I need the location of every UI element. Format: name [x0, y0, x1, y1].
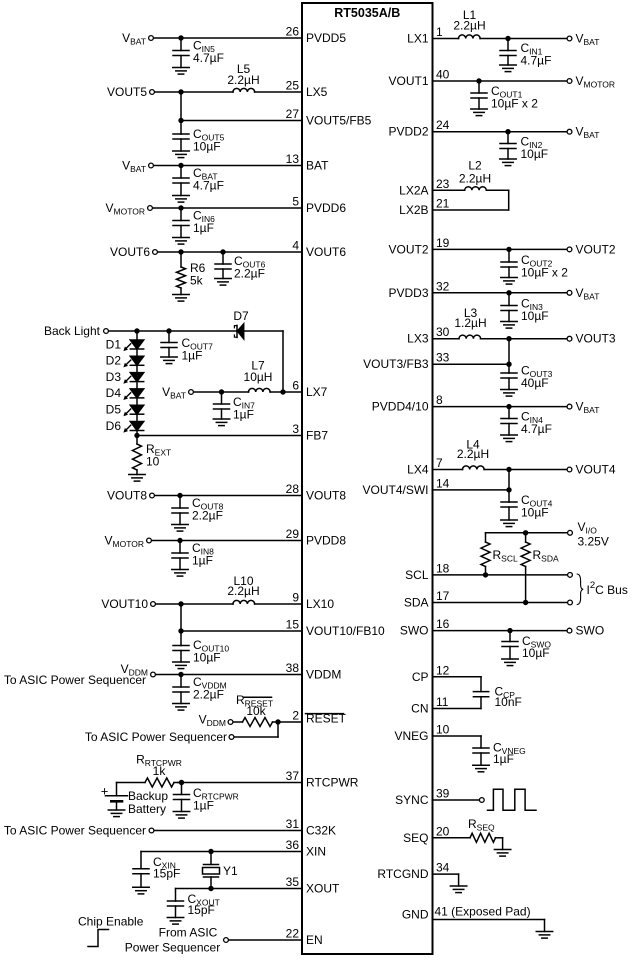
svg-text:8: 8 [436, 393, 443, 407]
svg-text:C32K: C32K [306, 824, 336, 838]
ground COUT2 [501, 278, 517, 285]
wire GND corner down [544, 920, 546, 932]
svg-text:10µF: 10µF [193, 140, 221, 154]
svg-text:35: 35 [286, 875, 300, 889]
svg-text:VOUT8: VOUT8 [306, 489, 346, 503]
svg-text:FB7: FB7 [306, 429, 328, 443]
ground CIN5 [173, 68, 189, 75]
wire L4 to VOUT4 [484, 469, 566, 471]
svg-text:37: 37 [286, 769, 300, 783]
ground battery [108, 810, 124, 817]
svg-text:VOUT1: VOUT1 [388, 74, 428, 88]
svg-text:9: 9 [292, 591, 299, 605]
inductor L1 [459, 35, 481, 39]
wire CP [433, 676, 482, 678]
svg-text:3: 3 [292, 422, 299, 436]
wire L1 to VBAT [480, 38, 566, 40]
terminal circle VBAT r1 [567, 36, 572, 41]
battery Backup Battery [106, 783, 128, 811]
terminal circle VDDM [151, 672, 156, 677]
svg-text:SYNC: SYNC [395, 793, 429, 807]
ground COUT1 [471, 109, 487, 116]
svg-text:VOUT2: VOUT2 [576, 242, 616, 256]
capacitor COUT3 [501, 373, 517, 390]
terminal circle SCL [568, 573, 573, 578]
svg-text:18: 18 [436, 561, 450, 575]
svg-text:To ASIC Power Sequencer: To ASIC Power Sequencer [85, 730, 227, 744]
svg-text:4: 4 [292, 239, 299, 253]
wire VOUT5 to L5 [155, 91, 233, 93]
ground COUT6 [215, 279, 231, 286]
svg-text:Power Sequencer: Power Sequencer [125, 941, 220, 955]
ground COUT10 [173, 662, 189, 669]
ground CIN2 [500, 159, 516, 166]
svg-text:VOUT10/FB10: VOUT10/FB10 [306, 624, 385, 638]
wire L10 to LX10 [255, 603, 302, 605]
terminal circle VBAT L7 [189, 390, 194, 395]
wire VOUT2 [433, 248, 567, 250]
svg-text:VDDM: VDDM [199, 713, 226, 729]
svg-text:10µF x 2: 10µF x 2 [521, 266, 568, 280]
junction SDA RSDA [523, 600, 528, 605]
resistor R6 [177, 267, 186, 288]
label Backup Battery [128, 789, 168, 816]
svg-text:25: 25 [286, 79, 300, 93]
ground CIN3 [501, 322, 517, 329]
terminal circle VOUT8 [150, 493, 155, 498]
svg-text:VOUT3: VOUT3 [576, 332, 616, 346]
terminal circle VMOTOR 2 [147, 538, 152, 543]
wire LX2A to L2 [433, 189, 465, 191]
wire R6 lead [180, 252, 182, 267]
ground CIN8 [172, 570, 188, 577]
junction VOUT3 rail [506, 336, 511, 341]
junction RTCPWR node [179, 780, 184, 785]
ground CIN4 [501, 435, 517, 442]
wire RESET node down [277, 722, 279, 737]
LED D6 [123, 422, 143, 433]
svg-text:CN: CN [411, 702, 428, 716]
svg-text:VOUT10: VOUT10 [101, 597, 148, 611]
wire XOUT corner down [175, 889, 177, 902]
svg-text:CP: CP [412, 670, 429, 684]
terminal circle VDDM 2 [228, 720, 233, 725]
terminal circle VIO [568, 530, 573, 535]
wire L2 corner down [508, 190, 510, 210]
svg-text:32: 32 [436, 279, 450, 293]
inductor L5 [233, 88, 255, 92]
svg-text:10: 10 [436, 723, 450, 737]
wire SDA [433, 602, 568, 604]
svg-text:1: 1 [436, 25, 443, 39]
svg-text:VI/O: VI/O [578, 520, 598, 536]
junction COUT8 [177, 493, 182, 498]
junction COUT1 [476, 78, 481, 83]
wire VIO rail [486, 532, 568, 534]
svg-text:2.2µF: 2.2µF [193, 688, 224, 702]
svg-text:VBAT: VBAT [122, 31, 146, 47]
svg-text:10µF: 10µF [521, 309, 549, 323]
wire RSCL bottom lead [485, 567, 487, 576]
ground CXOUT [167, 918, 183, 925]
wire pin 14 [433, 489, 510, 491]
wire VBAT to BAT [154, 165, 302, 167]
wire CN corner up [480, 697, 482, 709]
junction CIN5 [178, 35, 183, 40]
svg-text:10µF x 2: 10µF x 2 [491, 97, 538, 111]
wire VOUT6 to pin [158, 251, 302, 253]
terminal circle VOUT2 [567, 247, 572, 252]
junction Y1 bottom [208, 886, 213, 891]
wire FB7 [137, 435, 302, 437]
svg-text:Back Light: Back Light [44, 324, 101, 338]
ground CVDDM [173, 704, 189, 711]
wire L5 to LX5 [255, 91, 302, 93]
inductor L3 [459, 335, 481, 339]
terminal circle VMOTOR [148, 206, 153, 211]
wire CN [433, 708, 482, 710]
ground COUT4 [501, 520, 517, 527]
wire R6 to ground [180, 288, 182, 295]
svg-text:1k: 1k [153, 764, 167, 778]
ground GND exposed pad [536, 932, 552, 939]
svg-text:41 (Exposed Pad): 41 (Exposed Pad) [435, 905, 531, 919]
diode D7 [234, 324, 243, 339]
svg-text:D3: D3 [106, 370, 122, 384]
junction CIN8 [177, 538, 182, 543]
svg-text:20: 20 [436, 824, 450, 838]
svg-text:VMOTOR: VMOTOR [576, 74, 616, 90]
junction CSWO [507, 628, 512, 633]
ground CSWO [502, 659, 518, 666]
svg-text:LX2B: LX2B [399, 203, 428, 217]
svg-text:10µF: 10µF [521, 506, 549, 520]
junction VOUT4/SWI [506, 487, 511, 492]
terminal circle VOUT3 [567, 336, 572, 341]
wire LX3 to L3 [433, 338, 460, 340]
svg-text:4.7µF: 4.7µF [521, 54, 552, 68]
IC U1 RT5035A/B body [302, 3, 433, 954]
svg-text:4.7µF: 4.7µF [521, 422, 552, 436]
capacitor CXOUT [168, 901, 184, 918]
wire REXT to ground [136, 470, 138, 475]
resistor RRESET [243, 718, 273, 727]
svg-text:VDDM: VDDM [306, 668, 341, 682]
svg-text:40µF: 40µF [521, 376, 549, 390]
svg-text:VBAT: VBAT [576, 286, 600, 302]
svg-text:10µH: 10µH [244, 370, 273, 384]
svg-text:D1: D1 [106, 337, 122, 351]
wire Back Light rail [109, 330, 237, 332]
ground COUT3 [501, 390, 517, 397]
svg-text:31: 31 [286, 817, 300, 831]
resistor REXT [133, 444, 142, 470]
capacitor COUT6 [215, 252, 231, 279]
wire LX2B [433, 209, 509, 211]
label RRESET [236, 693, 273, 709]
LED D2 [123, 356, 143, 372]
wire junction to VOUT5/FB5 [181, 120, 302, 122]
svg-text:4.7µF: 4.7µF [193, 179, 224, 193]
terminal circle SYNC [479, 798, 484, 803]
wire RRTCPWR to junction [174, 782, 182, 784]
svg-text:EN: EN [306, 933, 323, 947]
wire VMOTOR to PVDD6 [153, 207, 302, 209]
ground COUT5 [173, 151, 189, 158]
capacitor CIN7 [214, 392, 230, 419]
terminal circle sequencer 2 [229, 735, 234, 740]
ground CIN6 [173, 238, 189, 245]
svg-text:Backup: Backup [128, 789, 168, 803]
wire RSEQ corner down [502, 838, 504, 850]
svg-text:SWO: SWO [576, 624, 605, 638]
svg-text:36: 36 [286, 838, 300, 852]
wire RSCL top lead [485, 533, 487, 542]
svg-text:PVDD8: PVDD8 [306, 534, 346, 548]
I2C Bus brace [577, 574, 583, 605]
svg-text:RT5035A/B: RT5035A/B [334, 6, 400, 20]
svg-text:SDA: SDA [404, 596, 429, 610]
wire VDDM to RRESET [234, 721, 243, 723]
svg-text:2: 2 [292, 709, 299, 723]
junction CIN1 [505, 36, 510, 41]
capacitor COUT1 [471, 81, 487, 109]
svg-text:1µF: 1µF [192, 554, 213, 568]
wire RSDA top lead [525, 533, 527, 542]
junction COUT7 [166, 328, 171, 333]
svg-text:15pF: 15pF [153, 867, 180, 881]
sync square wave [488, 789, 537, 810]
svg-text:LX4: LX4 [407, 463, 429, 477]
terminal circle VBAT [149, 36, 154, 41]
junction FB7 node [134, 433, 139, 438]
ground R6 [173, 295, 189, 302]
svg-text:LX3: LX3 [407, 332, 429, 346]
capacitor CVDDM [173, 675, 189, 704]
svg-text:22: 22 [286, 927, 300, 941]
junction RESET node [275, 719, 280, 724]
wire LX4 to L4 [433, 469, 463, 471]
svg-text:LX1: LX1 [407, 32, 429, 46]
junction VOUT10/FB10 [178, 628, 183, 633]
wire RTCGND corner down [458, 874, 460, 886]
ground RSEQ [494, 850, 510, 857]
svg-text:5k: 5k [190, 274, 204, 288]
capacitor COUT4 [501, 502, 517, 520]
wire VOUT10 rail down [180, 604, 182, 646]
junction CIN4 [506, 404, 511, 409]
svg-text:Battery: Battery [128, 802, 166, 816]
svg-text:To ASIC Power Sequencer: To ASIC Power Sequencer [4, 673, 146, 687]
wire VOUT8 to pin [155, 495, 302, 497]
terminal circle VBAT r4 [567, 404, 572, 409]
svg-text:12: 12 [436, 663, 450, 677]
capacitor CIN4 [501, 407, 517, 435]
svg-text:34: 34 [436, 861, 450, 875]
svg-text:XIN: XIN [306, 845, 326, 859]
svg-text:RSEQ: RSEQ [468, 817, 495, 833]
svg-text:PVDD2: PVDD2 [388, 125, 428, 139]
svg-text:17: 17 [436, 589, 450, 603]
svg-text:RSDA: RSDA [533, 548, 559, 564]
wire L7 to LX7 [270, 391, 302, 393]
svg-text:11: 11 [436, 695, 449, 709]
svg-text:D2: D2 [106, 354, 122, 368]
svg-text:VBAT: VBAT [576, 125, 600, 141]
svg-text:PVDD6: PVDD6 [306, 201, 346, 215]
wire battery to RRTCPWR [117, 782, 146, 784]
svg-text:PVDD3: PVDD3 [388, 286, 428, 300]
terminal circle VBAT r2 [567, 129, 572, 134]
wire XOUT [176, 888, 303, 890]
svg-text:10µF: 10µF [521, 147, 549, 161]
svg-text:VOUT5: VOUT5 [107, 85, 147, 99]
capacitor COUT2 [501, 249, 517, 277]
junction VOUT4 rail [506, 467, 511, 472]
wire junction to pin 15 [181, 630, 302, 632]
wire L2 to corner [486, 189, 508, 191]
wire VOUT4 rail down [508, 470, 510, 503]
svg-text:27: 27 [286, 107, 300, 121]
svg-text:SCL: SCL [405, 568, 429, 582]
capacitor CIN2 [500, 132, 516, 159]
capacitor COUT8 [172, 496, 188, 525]
svg-text:VBAT: VBAT [162, 385, 186, 401]
svg-text:L2: L2 [468, 159, 482, 173]
svg-text:VOUT3/FB3: VOUT3/FB3 [363, 357, 429, 371]
capacitor CVNEG [473, 736, 489, 765]
wire VBAT to L7 [194, 391, 249, 393]
svg-text:28: 28 [286, 482, 300, 496]
ground CIN1 [500, 65, 516, 72]
junction R6 [178, 249, 183, 254]
capacitor CCP [473, 692, 488, 697]
svg-text:VOUT8: VOUT8 [107, 489, 147, 503]
capacitor CIN5 [173, 38, 189, 68]
svg-text:D6: D6 [106, 419, 122, 433]
svg-text:D4: D4 [106, 386, 122, 400]
wire RRTCPWR to pin 37 [178, 782, 302, 784]
wire VOUT3 rail down [508, 339, 510, 373]
inductor L4 [463, 466, 485, 470]
svg-text:2.2µF: 2.2µF [192, 509, 223, 523]
junction CVDDM [178, 672, 183, 677]
svg-text:29: 29 [286, 527, 300, 541]
svg-text:Y1: Y1 [223, 864, 238, 878]
wire VOUT5 rail down [180, 92, 182, 134]
ground RTCGND [450, 886, 466, 893]
terminal circle sequencer 3 [149, 828, 154, 833]
junction SCL RSCL [483, 572, 488, 577]
svg-text:From ASIC: From ASIC [159, 926, 218, 940]
svg-text:10µF: 10µF [522, 646, 550, 660]
junction VOUT10 rail [178, 601, 183, 606]
resistor RSCL [481, 542, 490, 567]
capacitor COUT5 [173, 134, 189, 151]
svg-text:30: 30 [436, 325, 450, 339]
wire SEQ to RSEQ [433, 837, 471, 839]
svg-text:VOUT5/FB5: VOUT5/FB5 [306, 114, 372, 128]
terminal circle VBAT r3 [567, 290, 572, 295]
wire VMOTOR to PVDD8 [152, 540, 302, 542]
wire RSDA bottom lead [525, 567, 527, 603]
svg-text:XOUT: XOUT [306, 882, 340, 896]
svg-text:1µF: 1µF [182, 349, 203, 363]
capacitor CIN1 [500, 39, 516, 66]
wire D7 to corner [244, 330, 283, 332]
svg-text:10µF: 10µF [193, 651, 221, 665]
terminal circle VOUT10 [151, 602, 156, 607]
wire LED chain lead [136, 331, 138, 340]
inductor L2 [465, 187, 487, 191]
junction VOUT5/FB5 [178, 118, 183, 123]
svg-text:38: 38 [286, 661, 300, 675]
wire VOUT10 to L10 [156, 603, 233, 605]
svg-text:D5: D5 [106, 403, 122, 417]
capacitor CIN8 [172, 541, 188, 570]
inductor L7 [249, 388, 271, 392]
svg-text:VOUT4: VOUT4 [576, 463, 616, 477]
svg-text:2.2µH: 2.2µH [453, 19, 485, 33]
svg-text:40: 40 [436, 68, 450, 82]
svg-text:SWO: SWO [400, 624, 429, 638]
wire SYNC [433, 799, 479, 801]
terminal circle VOUT6 [153, 250, 158, 255]
capacitor CSWO [502, 631, 518, 659]
svg-text:26: 26 [286, 25, 300, 39]
svg-text:RTCGND: RTCGND [377, 867, 428, 881]
wire PVDD2 [433, 131, 567, 133]
svg-text:LX10: LX10 [306, 597, 334, 611]
svg-text:2.2µH: 2.2µH [227, 73, 259, 87]
svg-text:LX2A: LX2A [399, 183, 428, 197]
resistor RRTCPWR [145, 778, 174, 787]
wire PVDD4/10 [433, 406, 567, 408]
svg-text:2.2µH: 2.2µH [459, 172, 491, 186]
LED D3 [123, 373, 143, 389]
terminal VIO label [578, 520, 609, 549]
svg-text:33: 33 [436, 351, 450, 365]
svg-text:10nF: 10nF [495, 695, 522, 709]
capacitor CIN6 [173, 208, 189, 238]
svg-text:RTCPWR: RTCPWR [306, 776, 359, 790]
svg-text:BAT: BAT [306, 159, 329, 173]
inductor L10 [233, 600, 255, 604]
svg-text:VBAT: VBAT [576, 32, 600, 48]
wire VOUT1 [433, 80, 567, 82]
wire XIN corner down [140, 852, 142, 869]
svg-text:6: 6 [292, 379, 299, 393]
svg-text:2.2µH: 2.2µH [457, 447, 489, 461]
svg-text:15: 15 [286, 618, 300, 632]
wire RRESET to pin 2 [273, 721, 303, 723]
terminal circle VBAT 2 [149, 163, 154, 168]
ground CXIN [133, 887, 149, 894]
svg-text:VBAT: VBAT [576, 400, 600, 416]
capacitor CIN3 [501, 293, 517, 322]
terminal circle SDA [568, 600, 573, 605]
junction COUT2 [506, 247, 511, 252]
svg-text:1µF: 1µF [233, 408, 254, 422]
svg-text:LX5: LX5 [306, 85, 328, 99]
svg-text:Chip Enable: Chip Enable [78, 915, 144, 929]
svg-text:21: 21 [436, 197, 450, 211]
wire GND [433, 919, 545, 921]
capacitor CXIN [133, 869, 149, 888]
svg-text:7: 7 [436, 456, 443, 470]
wire VBAT to PVDD5 [154, 37, 302, 39]
junction CIN6 [178, 205, 183, 210]
